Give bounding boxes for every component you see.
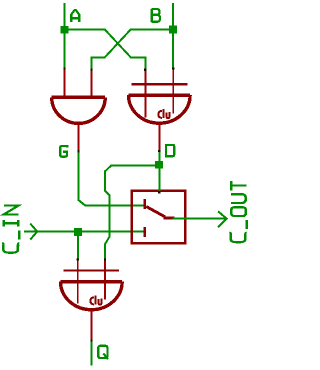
AND gate body (output G, pointing down): [52, 97, 105, 123]
XOR gate inner curl mark: [158, 109, 169, 118]
wire: G output down to mux input 1: [78, 151, 143, 205]
mux switch arm: [146, 207, 174, 219]
pin/wire joint dots: [63, 67, 174, 341]
wire: net B vertical drop: [172, 3, 174, 69]
XOR gate input pin from A: [144, 70, 146, 118]
bottom XOR gate input pin from P: [104, 260, 106, 300]
label Q: [98, 346, 108, 360]
bottom XOR gate input pin from C_IN: [77, 260, 79, 304]
junction on net C_IN: [74, 228, 82, 236]
wire: Q output: [91, 341, 93, 366]
bottom XOR gate second input-side line: [63, 269, 119, 271]
wire: C_IN junction down to bottom gate input: [77, 232, 79, 260]
global label C_IN arrow: [30, 224, 37, 240]
bottom XOR gate inner curl mark: [90, 295, 101, 304]
label G: [60, 146, 67, 157]
wire: net A vertical drop: [64, 3, 66, 69]
mux input contact 1: [143, 199, 146, 209]
wire: A junction to right gate input (upper X branch): [65, 30, 146, 70]
XOR gate input pin from B: [172, 69, 174, 114]
wire: P to bottom XOR input (zigzag): [105, 165, 159, 259]
wire: B junction to left gate input (lower X branch): [91, 30, 172, 70]
junction on net A: [61, 26, 69, 34]
junction on net B: [169, 26, 177, 34]
global label C_OUT arrow: [218, 211, 227, 227]
wire: P output to mux select: [158, 151, 160, 192]
XOR gate output pin (net P): [158, 123, 160, 151]
junction on net P: [155, 161, 163, 169]
label P: [166, 145, 174, 158]
wire: mux select from P junction: [158, 165, 160, 193]
wire: C_IN horizontal: [24, 231, 144, 233]
label C_IN (rotated): [2, 206, 19, 253]
bottom XOR gate body (output Q, pointing down): [61, 282, 123, 310]
AND gate output pin (net G): [77, 124, 79, 152]
mux/switch box: [132, 191, 185, 243]
label B: [152, 9, 160, 22]
wire: mux output to C_OUT: [173, 218, 227, 220]
label C_OUT (rotated): [229, 181, 246, 242]
XOR gate body (output P, pointing down): [129, 95, 191, 123]
mux input contact 2: [143, 227, 146, 237]
AND gate input pin from B: [91, 69, 93, 97]
bottom XOR gate output pin (net Q): [91, 310, 93, 341]
label A: [71, 10, 79, 22]
AND gate input pin from A: [63, 69, 65, 97]
XOR gate second input-side line: [132, 83, 188, 85]
